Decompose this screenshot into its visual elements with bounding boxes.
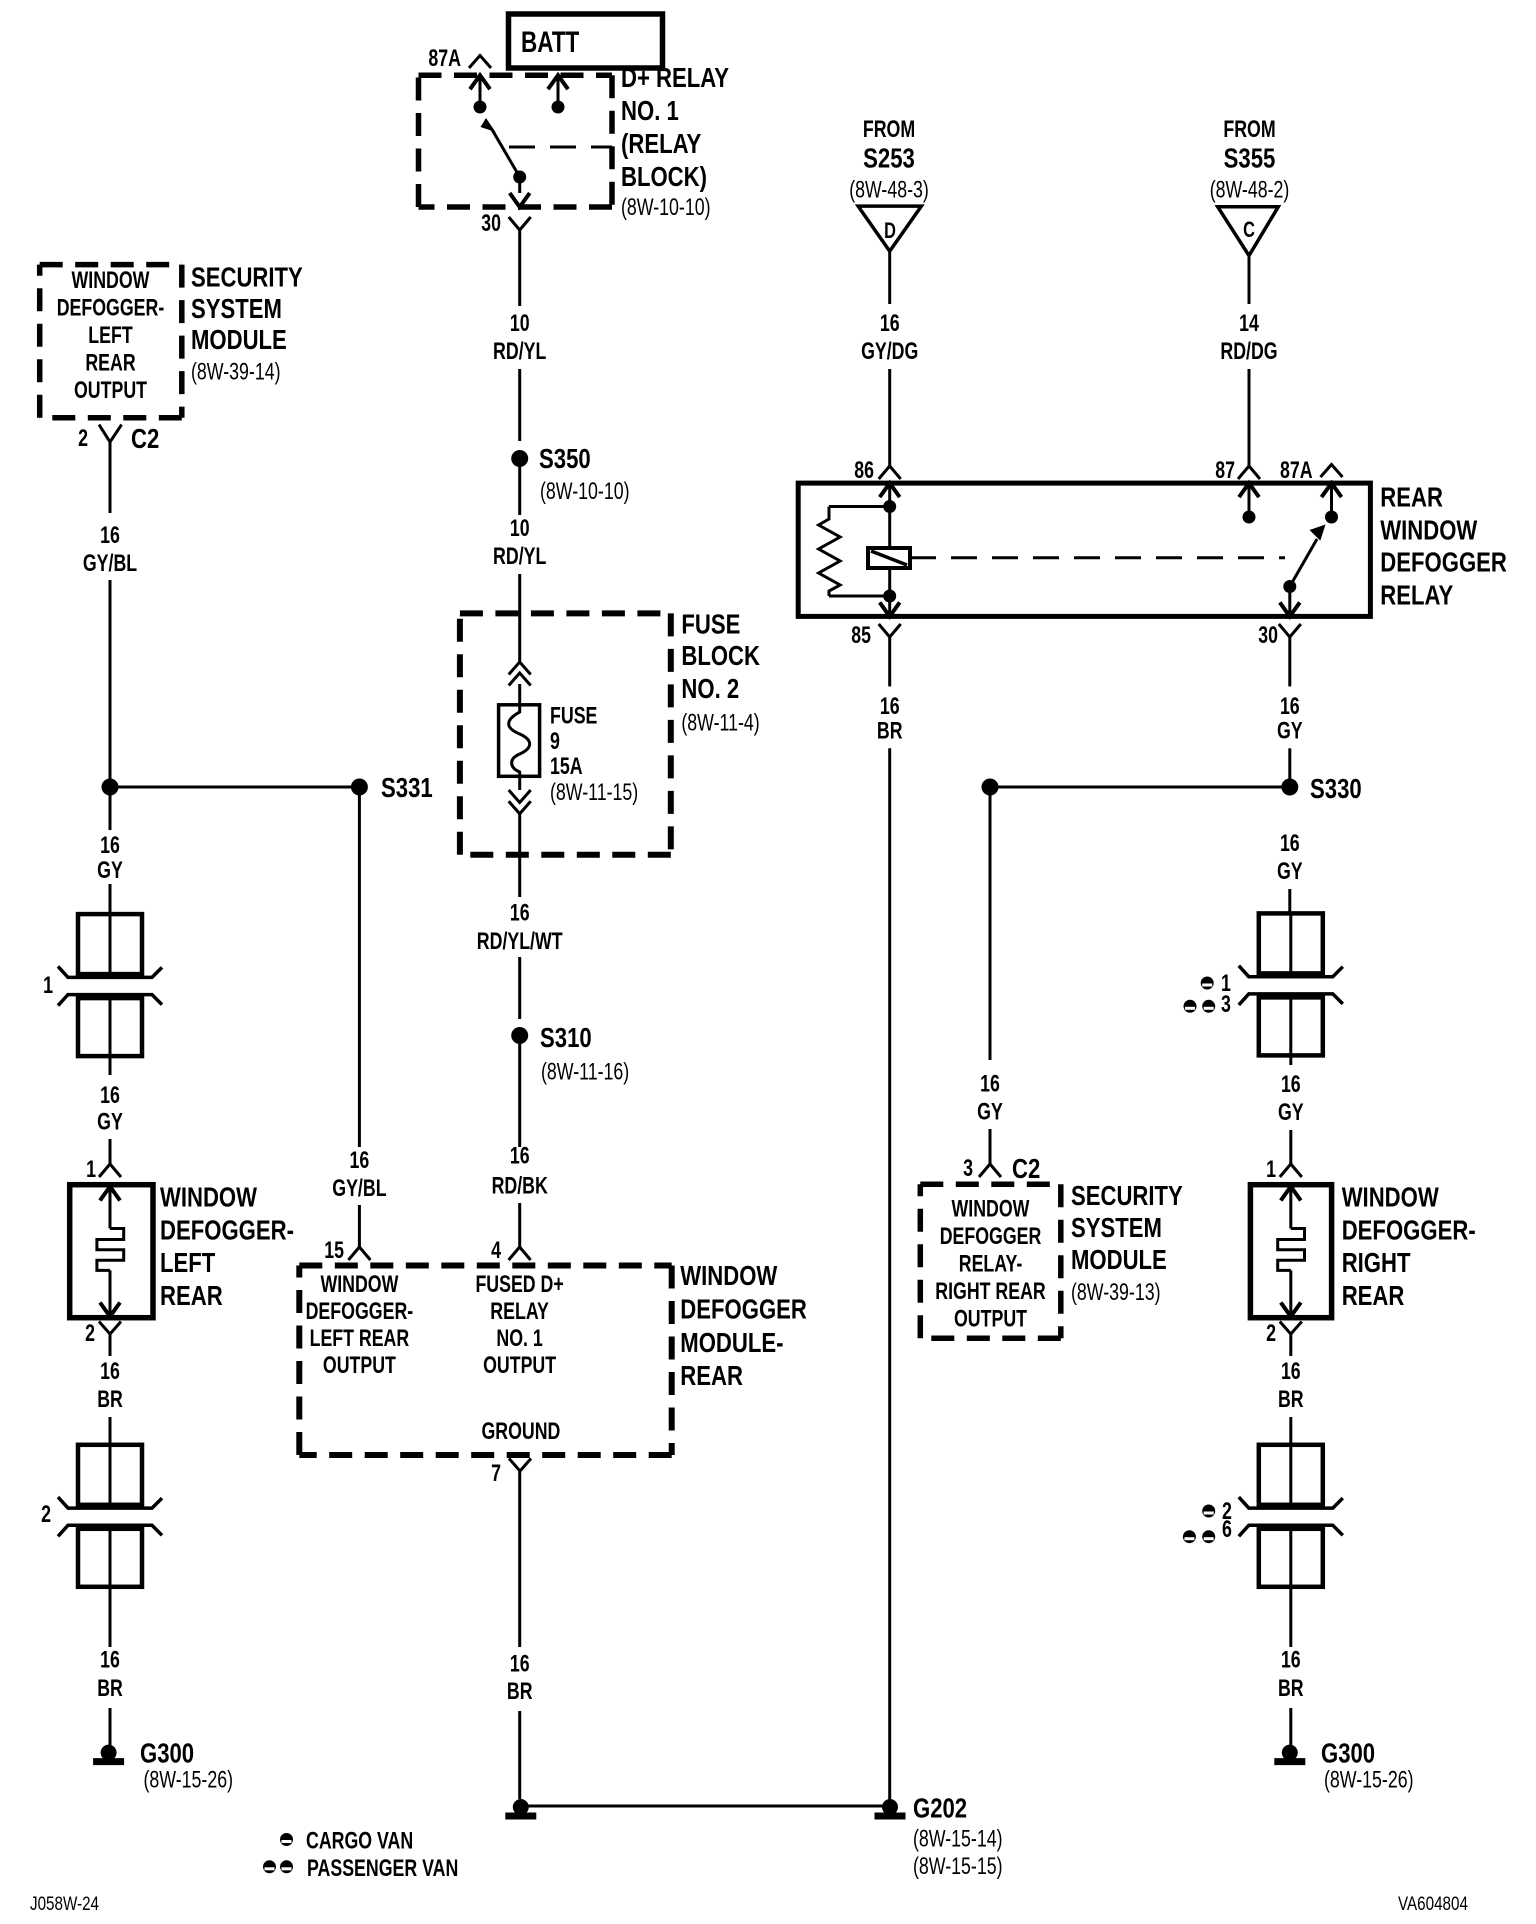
svg-text:S310: S310 [540,1022,592,1053]
window defogger-left rear box [70,1185,153,1318]
svg-text:4: 4 [491,1237,501,1264]
svg-text:BR: BR [97,1675,123,1702]
wire label 16 GY [977,1071,1003,1126]
wire to module pin 4 [518,1203,521,1247]
svg-text:2: 2 [41,1501,51,1528]
svg-text:(8W-15-15): (8W-15-15) [913,1853,1003,1880]
relay coil-to-contact link [868,507,1285,597]
wire label 16 GY [1277,693,1303,744]
wire label 16 GY [1277,830,1303,885]
connector C2 label [131,423,159,454]
svg-text:BATT: BATT [521,26,579,59]
wire 30 to S350 upper segment [518,230,521,306]
wire 85 ground run [888,748,891,1806]
off-page triangle C from S355 [1218,207,1279,256]
connector fork pin 4 [509,1247,531,1260]
svg-text:BR: BR [1278,1675,1304,1702]
svg-text:16: 16 [510,1143,530,1170]
wire [1288,637,1291,686]
svg-text:S331: S331 [381,772,433,803]
svg-text:NO. 1: NO. 1 [621,95,679,126]
wire [109,1056,112,1075]
wire [989,1129,992,1164]
wire label 16 GY/BL [83,522,137,577]
ground G300 (right) [1274,1737,1413,1793]
double chevron (fuse output) [509,790,531,814]
defogger element symbol (left) [97,1187,124,1317]
svg-text:87: 87 [1215,457,1235,484]
svg-text:16: 16 [350,1147,370,1174]
svg-text:RD/BK: RD/BK [492,1173,549,1200]
svg-text:SECURITY: SECURITY [191,262,303,293]
svg-text:16: 16 [510,1651,530,1678]
pin 15 label [324,1237,344,1264]
svg-text:LEFT: LEFT [160,1247,215,1278]
label SECURITY SYSTEM MODULE (8W-39-13) [1071,1180,1183,1306]
svg-text:WINDOW: WINDOW [680,1260,777,1291]
security system module dashed box (left) [40,265,182,418]
svg-text:D+ RELAY: D+ RELAY [621,62,729,93]
wire [1289,1587,1292,1647]
svg-text:1: 1 [43,972,53,999]
svg-text:WINDOW: WINDOW [952,1196,1030,1223]
svg-text:DEFOGGER: DEFOGGER [940,1223,1042,1250]
connector fork pin 1 (right defogger) [1280,1164,1302,1177]
legend passenger van [263,1855,458,1882]
wire [1248,256,1251,304]
svg-text:DEFOGGER-: DEFOGGER- [306,1298,414,1325]
svg-text:16: 16 [100,522,120,549]
svg-text:DEFOGGER: DEFOGGER [1380,547,1507,578]
wire to G202 horizontal [520,1805,890,1808]
security system module dashed box (right) [920,1184,1061,1338]
svg-text:(8W-11-15): (8W-11-15) [550,779,638,806]
svg-text:FUSE: FUSE [681,608,740,639]
svg-text:BR: BR [97,1386,123,1413]
label REAR WINDOW DEFOGGER RELAY [1380,482,1507,611]
svg-text:16: 16 [100,1358,120,1385]
connector fork pin 30 [1279,624,1301,637]
label SECURITY SYSTEM MODULE (8W-39-14) [191,262,303,386]
fuse block no.2 dashed box [460,613,671,854]
relay block internal dashed actuator line [509,146,612,149]
svg-text:GY: GY [97,857,123,884]
svg-text:15: 15 [324,1237,344,1264]
svg-text:PASSENGER VAN: PASSENGER VAN [307,1855,458,1882]
wire [1248,369,1251,466]
svg-text:30: 30 [481,210,501,237]
cargo van bullet pin 1 [1201,970,1231,997]
label WINDOW DEFOGGER- LEFT REAR OUTPUT (module pin 15) [306,1271,414,1379]
svg-text:16: 16 [1281,1358,1301,1385]
svg-text:S350: S350 [539,443,591,474]
wire [518,467,521,515]
svg-text:SECURITY: SECURITY [1071,1180,1183,1211]
fuse labels FUSE 9 15A (8W-11-15) [550,703,638,806]
svg-text:16: 16 [1280,693,1300,720]
svg-text:FUSED D+: FUSED D+ [475,1271,563,1298]
wire label 16 GY [97,1082,123,1136]
wire label 16 GY [1278,1071,1304,1126]
svg-text:(8W-15-26): (8W-15-26) [144,1767,234,1794]
label WINDOW DEFOGGER- LEFT REAR OUTPUT (inside left module) [57,267,165,404]
svg-text:S330: S330 [1310,773,1362,804]
connector chevron above relay block pin 87A [469,56,491,69]
svg-text:OUTPUT: OUTPUT [483,1352,556,1379]
svg-text:(8W-10-10): (8W-10-10) [621,194,711,221]
label WINDOW DEFOGGER- LEFT REAR [160,1182,294,1311]
pin 2 label [1266,1320,1276,1347]
svg-text:SYSTEM: SYSTEM [191,293,282,324]
wire [109,884,112,914]
svg-text:BR: BR [1278,1386,1304,1413]
wire [109,442,112,513]
svg-text:(8W-39-14): (8W-39-14) [191,359,281,386]
svg-text:RD/YL: RD/YL [493,338,546,365]
svg-text:85: 85 [851,622,871,649]
svg-text:7: 7 [491,1460,501,1487]
wire [109,1334,112,1356]
svg-text:WINDOW: WINDOW [160,1182,257,1213]
svg-text:GROUND: GROUND [481,1418,560,1445]
svg-text:WINDOW: WINDOW [72,267,150,294]
svg-text:15A: 15A [550,753,583,780]
wire [109,1708,112,1745]
svg-text:MODULE-: MODULE- [680,1327,783,1358]
svg-text:GY/DG: GY/DG [861,338,918,365]
wire [518,1044,521,1147]
svg-text:VA604804: VA604804 [1398,1894,1468,1915]
wire [518,957,521,1019]
svg-text:10: 10 [510,515,530,542]
wire label 16 BR [97,1358,123,1413]
svg-text:RELAY: RELAY [1380,580,1453,611]
svg-text:D: D [884,218,896,243]
label GROUND (module pin 7) [481,1418,560,1445]
svg-text:RD/DG: RD/DG [1220,338,1277,365]
wire label 16 BR [1278,1647,1304,1702]
svg-text:LEFT REAR: LEFT REAR [310,1325,410,1352]
wire ground run from pin 7 [518,1471,521,1647]
wire [518,369,521,441]
svg-text:3: 3 [1221,991,1231,1018]
svg-text:GY/BL: GY/BL [332,1175,386,1202]
wire S330 horizontal [990,786,1290,789]
in-line connector (right, pins 2/6) [1239,1445,1343,1587]
svg-text:GY: GY [1277,717,1303,744]
wire [888,369,891,466]
wire [109,1139,112,1164]
pin 1 label [86,1156,96,1183]
wire label 16 RD/BK [492,1143,549,1200]
passenger van bullets pin 6 [1183,1516,1232,1543]
in-line connector (right, pins 1/3) [1239,913,1343,1055]
svg-text:G300: G300 [140,1737,194,1768]
relay pin 85 dot [883,590,896,603]
label WINDOW DEFOGGER MODULE- REAR [680,1260,807,1391]
svg-text:GY: GY [97,1109,123,1136]
svg-text:16: 16 [1280,830,1300,857]
window defogger module-rear dashed box [299,1266,671,1456]
svg-text:REAR: REAR [680,1360,743,1391]
svg-text:C2: C2 [1012,1153,1040,1184]
pin 85 label [851,622,871,649]
pin 87A label [1280,457,1313,484]
svg-text:RIGHT: RIGHT [1342,1247,1411,1278]
wire [1288,889,1291,913]
svg-text:REAR: REAR [1380,482,1443,513]
cargo van bullet pin 2 [1202,1498,1232,1525]
svg-text:30: 30 [1258,622,1278,649]
svg-text:BR: BR [877,717,903,744]
wire [518,684,521,705]
battery feed box BATT [509,14,663,68]
wire out of fuse block [518,814,521,897]
wire [518,776,521,790]
connector C2 label (right) [1012,1153,1040,1184]
relay pin 87A terminal arrow [1322,483,1342,523]
wire from S331 down to module pin 15 [358,795,361,1147]
wire label 16 BR [1278,1358,1304,1413]
svg-text:(8W-48-3): (8W-48-3) [849,176,929,203]
wire label 16 BR [877,693,903,744]
relay pin 86 terminal arrow [880,483,900,513]
svg-text:16: 16 [510,900,530,927]
svg-text:NO. 1: NO. 1 [496,1325,542,1352]
connector fork pin 87 [1238,466,1260,479]
label WINDOW DEFOGGER- RIGHT REAR [1342,1182,1476,1311]
splice S350 [511,443,629,505]
svg-text:2: 2 [78,425,88,452]
svg-text:CARGO VAN: CARGO VAN [306,1828,413,1855]
connector fork pin 15 [348,1247,370,1260]
svg-text:REAR: REAR [160,1280,223,1311]
svg-text:G300: G300 [1321,1737,1375,1768]
wire [109,1417,112,1444]
pin 87 label [1215,457,1235,484]
svg-text:RIGHT REAR: RIGHT REAR [935,1278,1046,1305]
svg-text:16: 16 [100,1082,120,1109]
svg-text:WINDOW: WINDOW [320,1271,398,1298]
svg-text:REAR: REAR [1342,1280,1405,1311]
pin 1 label [1266,1156,1276,1183]
splice S330 junction dot (left) [982,779,999,796]
pin 86 label [854,457,874,484]
svg-text:(8W-15-26): (8W-15-26) [1324,1767,1414,1794]
svg-text:DEFOGGER-: DEFOGGER- [160,1214,294,1245]
connector fork pin 85 [879,624,901,637]
svg-text:BLOCK: BLOCK [681,640,760,671]
svg-text:FROM: FROM [1223,116,1275,143]
wire from S330 to security module pin 3 [989,795,992,1060]
double chevron (fuse feed) [509,662,531,686]
svg-text:16: 16 [880,310,900,337]
connector fork pin 2 C2 [99,425,122,442]
fuse F9 15A symbol [499,705,540,777]
label D+ RELAY NO. 1 (RELAY BLOCK) (8W-10-10) [621,62,729,221]
connector chevron pin 87A [1321,465,1343,478]
ground G300 (left) [93,1737,233,1793]
svg-text:16: 16 [1281,1647,1301,1674]
relay coil (resistor + winding) [819,507,890,597]
connector fork pin 30 [509,217,531,230]
legend cargo van [280,1828,413,1855]
wire [888,251,891,304]
svg-text:3: 3 [963,1155,973,1182]
svg-text:(8W-15-14): (8W-15-14) [913,1826,1003,1853]
svg-text:S355: S355 [1224,142,1276,173]
svg-text:RD/YL: RD/YL [493,543,546,570]
wire label 10 RD/YL [493,310,546,365]
svg-text:(8W-10-10): (8W-10-10) [540,478,630,505]
svg-text:1: 1 [86,1156,96,1183]
svg-text:(RELAY: (RELAY [621,128,702,159]
svg-text:10: 10 [510,310,530,337]
connector fork pin 2 (right defogger) [1280,1322,1302,1335]
wire [888,637,891,686]
svg-text:9: 9 [550,728,560,755]
svg-text:REAR: REAR [85,350,135,377]
splice S310 [511,1022,629,1086]
svg-text:NO. 2: NO. 2 [681,673,739,704]
svg-text:RELAY-: RELAY- [959,1251,1023,1278]
ground G202 [505,1793,1002,1880]
wire S331 horizontal [110,786,359,789]
svg-text:2: 2 [85,1320,95,1347]
svg-text:MODULE: MODULE [191,324,287,355]
in-line connector 1 (left) [58,914,162,1056]
svg-text:J058W-24: J058W-24 [30,1894,99,1915]
svg-text:87A: 87A [428,45,461,72]
svg-text:GY: GY [1278,1099,1304,1126]
svg-text:(8W-39-13): (8W-39-13) [1071,1279,1161,1306]
wire [1289,1708,1292,1745]
wire [1288,748,1291,787]
relay block pin 87A terminal arrow [470,75,490,113]
svg-text:BLOCK): BLOCK) [621,161,707,192]
svg-text:16: 16 [100,832,120,859]
wire [358,1205,361,1247]
connector fork pin 7 [509,1459,531,1472]
svg-text:FROM: FROM [863,116,915,143]
svg-text:DEFOGGER-: DEFOGGER- [57,295,165,322]
wire label 16 GY/DG [861,310,918,365]
wire label 16 BR [97,1647,123,1702]
svg-text:87A: 87A [1280,457,1313,484]
defogger element symbol (right) [1278,1187,1305,1317]
wire down to S331 [109,580,112,787]
wire [109,1587,112,1647]
svg-text:86: 86 [854,457,874,484]
svg-text:C: C [1243,217,1255,242]
svg-text:16: 16 [880,693,900,720]
svg-text:2: 2 [1266,1320,1276,1347]
sheet number J058W-24 [30,1894,99,1915]
svg-text:GY: GY [977,1099,1003,1126]
svg-text:GY/BL: GY/BL [83,550,137,577]
label FUSED D+ RELAY NO. 1 OUTPUT (module pin 4) [475,1271,563,1379]
relay pin 87 terminal arrow [1239,483,1259,523]
wire label 16 GY/BL [332,1147,386,1202]
wire [1289,1055,1292,1065]
svg-text:DEFOGGER-: DEFOGGER- [1342,1214,1476,1245]
svg-text:OUTPUT: OUTPUT [74,377,147,404]
pin 4 label [491,1237,501,1264]
wire [109,795,112,830]
svg-text:BR: BR [507,1678,533,1705]
svg-text:14: 14 [1239,310,1259,337]
label FUSE BLOCK NO. 2 (8W-11-4) [681,608,760,736]
wire [1289,1334,1292,1356]
relay block pin 30 terminal arrow [510,177,530,207]
label FROM S355 (8W-48-2) [1210,116,1290,203]
pin 87A label (relay block) [428,45,461,72]
svg-text:LEFT: LEFT [88,322,133,349]
svg-text:SYSTEM: SYSTEM [1071,1212,1162,1243]
label FROM S253 (8W-48-3) [849,116,929,203]
relay block BATT feed terminal arrow [548,75,568,113]
connector fork pin 1 (left defogger) [99,1164,121,1177]
svg-text:(8W-11-4): (8W-11-4) [681,710,759,737]
pin 30 label [1258,622,1278,649]
label WINDOW DEFOGGER RELAY- RIGHT REAR OUTPUT (inside) [935,1196,1046,1333]
svg-text:1: 1 [1266,1156,1276,1183]
wire [518,1711,521,1799]
wire label 16 RD/YL/WT [477,900,563,955]
svg-text:C2: C2 [131,423,159,454]
svg-text:S253: S253 [863,142,915,173]
pin 2 label at connector [41,1501,51,1528]
svg-text:DEFOGGER: DEFOGGER [680,1294,807,1325]
connector fork pin 3 C2 [979,1164,1001,1177]
splice S331 [351,772,433,803]
relay block D+ Relay No.1 dashed box [419,75,613,207]
svg-text:(8W-11-16): (8W-11-16) [541,1059,629,1086]
pin 2 label [85,1320,95,1347]
pin 30 label below relay block [481,210,501,237]
in-line connector 2 (left) [58,1445,162,1587]
wire label 10 RD/YL [493,515,546,570]
svg-text:WINDOW: WINDOW [1342,1182,1439,1213]
svg-text:G202: G202 [913,1793,967,1824]
splice S331 junction dot (left) [102,779,119,796]
rear window defogger relay box [798,483,1370,616]
window defogger-right rear box [1250,1185,1331,1318]
passenger van bullets pin 3 [1184,991,1231,1018]
svg-text:OUTPUT: OUTPUT [954,1306,1027,1333]
wire label 14 RD/DG [1220,310,1277,365]
svg-text:RD/YL/WT: RD/YL/WT [477,928,563,955]
relay pin 85 terminal arrow [880,596,900,616]
svg-text:16: 16 [1281,1071,1301,1098]
pin 7 label [491,1460,501,1487]
wire [1289,1417,1292,1444]
wire into fuse block [518,574,521,662]
relay pin 30 terminal arrow [1280,587,1300,617]
svg-text:6: 6 [1222,1516,1232,1543]
wire [1289,1130,1292,1164]
off-page triangle D from S253 [858,206,921,251]
svg-text:RELAY: RELAY [490,1298,549,1325]
pin 1 label at connector [43,972,53,999]
pin 2 label [78,425,88,452]
pin 3 label [963,1155,973,1182]
svg-text:16: 16 [980,1071,1000,1098]
wire label 16 BR [507,1651,533,1705]
wire label 16 GY [97,832,123,884]
splice S330 [1281,773,1361,804]
drawing number VA604804 [1398,1894,1468,1915]
